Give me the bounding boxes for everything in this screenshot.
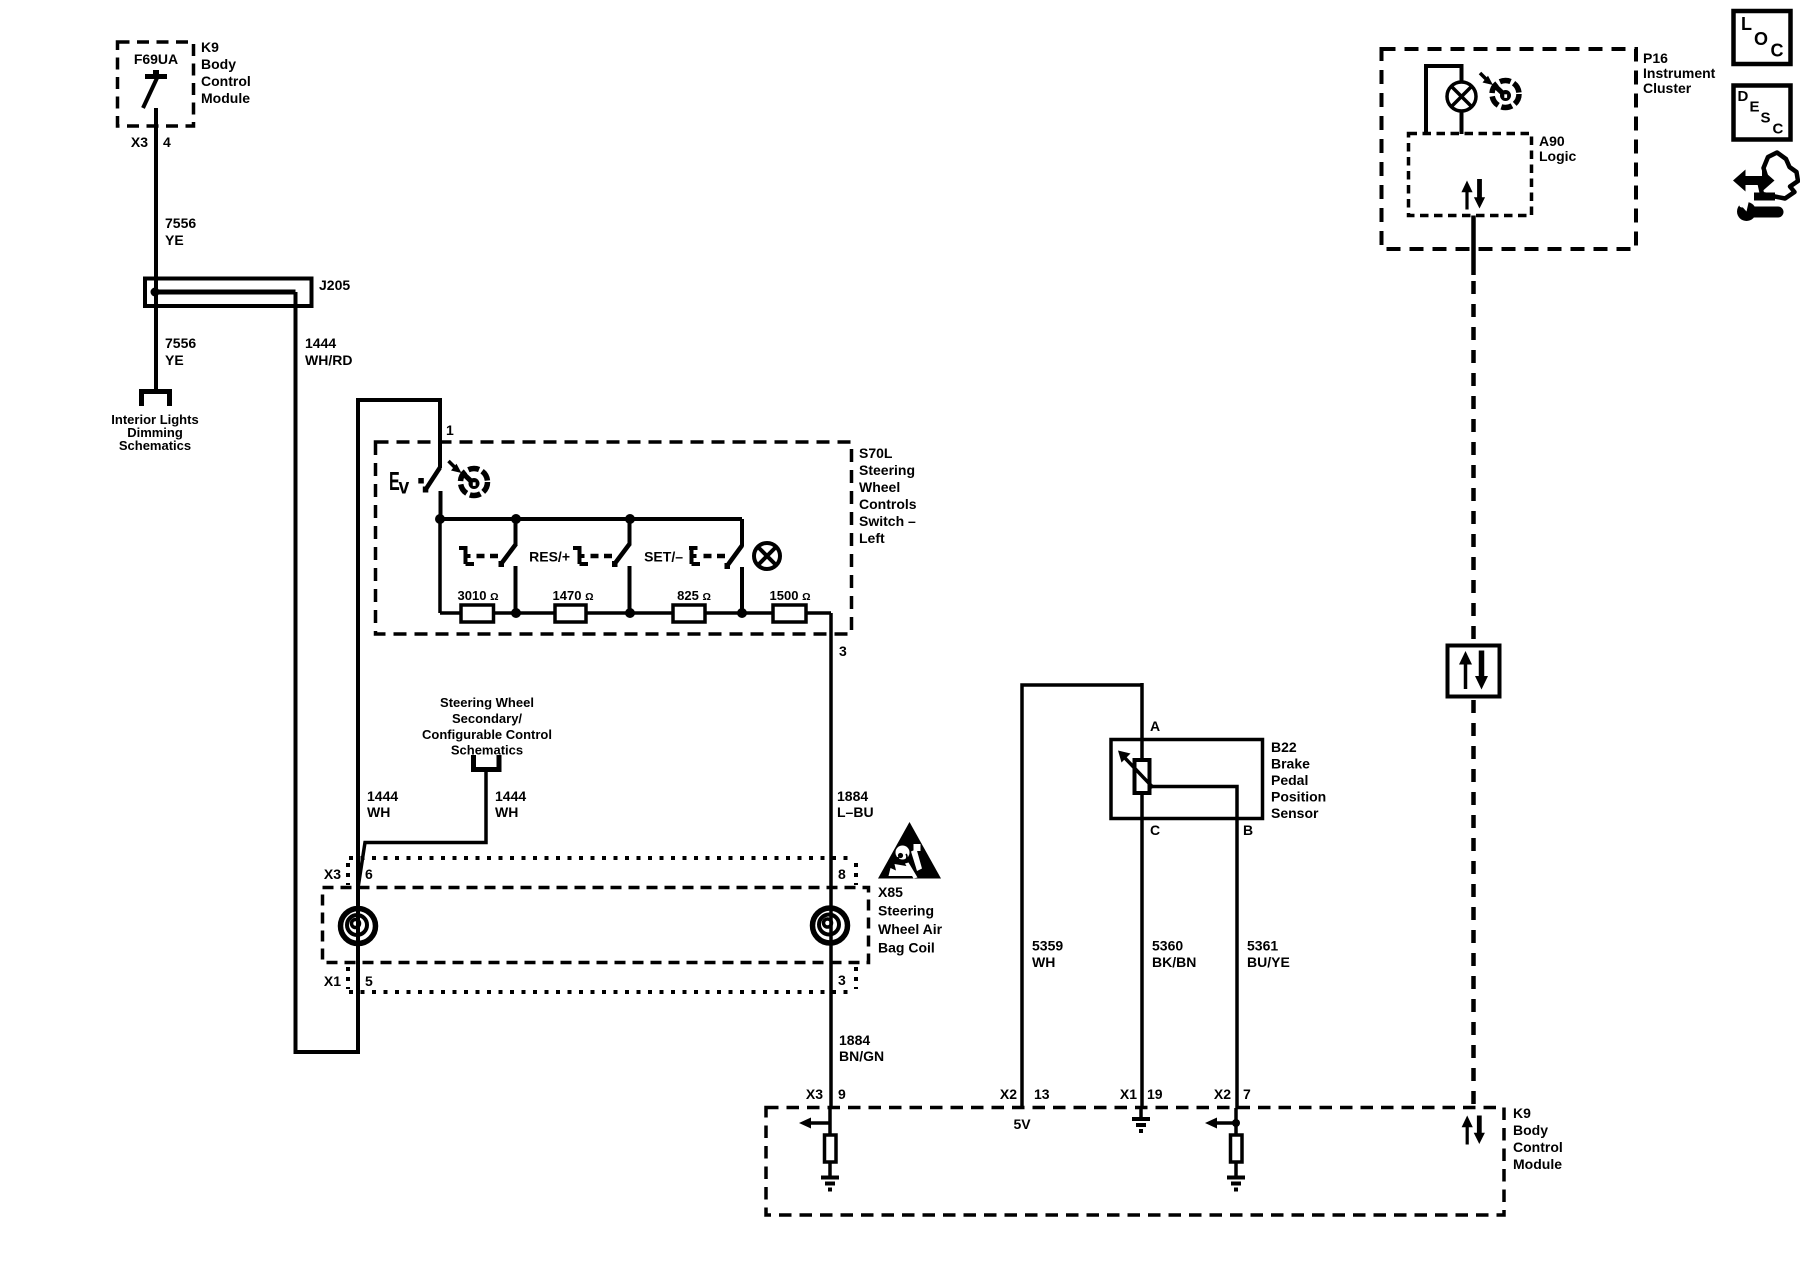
svg-text:WH: WH <box>1032 954 1055 970</box>
connector row X3 dotted line <box>349 856 855 860</box>
svg-text:E: E <box>1750 99 1760 116</box>
svg-text:C: C <box>1150 822 1160 838</box>
illumination lamp symbol <box>754 543 780 569</box>
svg-text:X1: X1 <box>324 973 341 989</box>
sensor B22 box <box>1111 740 1263 819</box>
svg-text:5359: 5359 <box>1032 938 1063 954</box>
wire and pulldown resistor at X3 9 <box>828 1108 832 1177</box>
svg-text:L: L <box>1741 14 1752 34</box>
wire and pulldown resistor at X2 7 <box>1234 1108 1238 1177</box>
wire label 1444 WH (right) <box>495 788 526 820</box>
svg-text:YE: YE <box>165 232 184 248</box>
svg-text:Brake: Brake <box>1271 756 1310 772</box>
junction dot D <box>511 608 521 618</box>
junction dot A <box>435 514 445 524</box>
icon LOC box <box>1734 11 1791 64</box>
wire label 1884 L-BU <box>837 788 874 820</box>
switch 3 mechanical link dashes <box>704 554 726 559</box>
svg-text:Pedal: Pedal <box>1271 772 1308 788</box>
module K9 Body Control Module label (top) <box>201 39 251 106</box>
svg-text:X1: X1 <box>1120 1086 1137 1102</box>
svg-text:Body: Body <box>201 56 236 72</box>
wire label 5359 WH <box>1032 938 1063 971</box>
svg-text:WH: WH <box>495 804 518 820</box>
svg-text:L–BU: L–BU <box>837 804 874 820</box>
junction dot F <box>737 608 747 618</box>
label SET/- <box>644 549 683 565</box>
coil X85 dashed box <box>323 888 869 963</box>
svg-text:X2: X2 <box>1214 1086 1231 1102</box>
resistor 3010 ohm <box>458 588 499 622</box>
fuse F69UA symbol <box>143 70 167 108</box>
svg-text:7: 7 <box>1243 1086 1251 1102</box>
junction dot E <box>625 608 635 618</box>
svg-text:K9: K9 <box>1513 1105 1531 1121</box>
wiper wire to pin B <box>1149 787 1237 1109</box>
svg-text:7556: 7556 <box>165 215 196 231</box>
svg-text:Instrument: Instrument <box>1643 65 1716 81</box>
svg-text:Left: Left <box>859 530 885 546</box>
label RES/+ <box>529 549 570 565</box>
connector X3 labels <box>324 866 373 882</box>
svg-text:4: 4 <box>163 134 171 150</box>
serial data gateway box <box>1448 646 1500 697</box>
svg-text:Body: Body <box>1513 1122 1548 1138</box>
switch 2 blade and stubs <box>612 519 630 613</box>
wire 5359 WH (5V supply) <box>1022 685 1142 1108</box>
switch S70L dashed box <box>376 442 852 634</box>
svg-text:3: 3 <box>839 643 847 659</box>
fuse F69UA dashed box <box>118 42 194 126</box>
fuse F69UA label <box>134 51 178 67</box>
svg-text:Switch –: Switch – <box>859 513 916 529</box>
wire label 1884 BN/GN <box>839 1032 884 1064</box>
svg-text:825 Ω: 825 Ω <box>677 588 711 603</box>
wire 5360 BK/BN (pin A to C through sensor) <box>1140 683 1144 1108</box>
junction dot at X2 7 arrow <box>1232 1119 1240 1127</box>
serial data symbol in gateway box <box>1459 651 1488 690</box>
switch 3 blade and stubs <box>725 519 743 613</box>
svg-text:5: 5 <box>365 973 373 989</box>
label Ev <box>389 466 410 499</box>
air bag warning triangle <box>878 822 941 879</box>
pin X2 13 labels <box>1000 1086 1050 1102</box>
svg-text:Wheel: Wheel <box>859 479 900 495</box>
svg-text:6: 6 <box>365 866 373 882</box>
svg-text:8: 8 <box>838 866 846 882</box>
connector X3 tick right <box>854 863 858 885</box>
svg-text:X85: X85 <box>878 884 903 900</box>
connector pin 8 label <box>838 866 846 882</box>
svg-text:BU/YE: BU/YE <box>1247 954 1290 970</box>
svg-text:P16: P16 <box>1643 50 1668 66</box>
svg-text:A: A <box>1150 718 1160 734</box>
svg-text:X2: X2 <box>1000 1086 1017 1102</box>
indicator lamp wire loop <box>1426 66 1462 134</box>
svg-text:A90: A90 <box>1539 133 1565 149</box>
svg-text:B: B <box>1243 822 1253 838</box>
pin X1 19 labels <box>1120 1086 1163 1102</box>
pin 1 label of S70L <box>446 422 454 438</box>
connector X1 labels <box>324 973 373 989</box>
ground symbol under X2 7 <box>1227 1178 1245 1190</box>
svg-text:1884: 1884 <box>837 788 868 804</box>
svg-text:5V: 5V <box>1013 1116 1031 1132</box>
splice pack J205 box <box>145 279 312 307</box>
icon data communication <box>1733 153 1798 222</box>
svg-text:Schematics: Schematics <box>119 438 191 453</box>
pin X2 7 labels <box>1214 1086 1251 1102</box>
svg-text:7556: 7556 <box>165 335 196 351</box>
svg-text:Steering: Steering <box>878 903 934 919</box>
label 5V <box>1013 1116 1031 1132</box>
svg-text:3: 3 <box>838 972 846 988</box>
svg-text:Control: Control <box>201 73 251 89</box>
resistor 825 ohm <box>673 588 711 622</box>
module P16 label <box>1643 50 1716 96</box>
svg-text:13: 13 <box>1034 1086 1050 1102</box>
pin 3 label of S70L <box>839 643 847 659</box>
svg-text:v: v <box>399 476 410 499</box>
wire label 1444 WH (left) <box>367 788 398 820</box>
signal arrow at X3 9 <box>799 1118 830 1129</box>
resistor 1470 ohm <box>553 588 594 622</box>
serial data symbol inside A90 <box>1461 179 1485 210</box>
svg-text:19: 19 <box>1147 1086 1163 1102</box>
indicator lamp symbol <box>1447 82 1476 111</box>
svg-text:Cluster: Cluster <box>1643 80 1692 96</box>
logic module A90 dashed box <box>1409 134 1532 216</box>
svg-text:BK/BN: BK/BN <box>1152 954 1196 970</box>
off-page label Interior Lights Dimming Schematics <box>111 412 198 453</box>
serial data wire dashed lower segment <box>1471 700 1476 1107</box>
svg-text:WH: WH <box>367 804 390 820</box>
svg-text:Sensor: Sensor <box>1271 805 1319 821</box>
switch 2 mechanical link dashes <box>591 554 613 559</box>
svg-text:Module: Module <box>1513 1156 1562 1172</box>
module P16 Instrument Cluster dashed box <box>1382 49 1637 249</box>
air bag coil left <box>341 909 376 944</box>
svg-text:S70L: S70L <box>859 445 893 461</box>
serial data wire dashed upper segment <box>1471 281 1476 645</box>
connector X3 tick left <box>346 863 350 885</box>
svg-text:1444: 1444 <box>367 788 398 804</box>
serial data wire solid segment below A90 <box>1471 216 1476 276</box>
svg-text:Schematics: Schematics <box>451 743 523 758</box>
svg-text:X3: X3 <box>806 1086 823 1102</box>
potentiometer arrow <box>1118 751 1153 788</box>
svg-text:X3: X3 <box>324 866 341 882</box>
resistor 1500 ohm <box>770 588 811 622</box>
wire label 7556 YE (upper) <box>165 215 196 248</box>
svg-text:1884: 1884 <box>839 1032 870 1048</box>
svg-text:YE: YE <box>165 352 184 368</box>
air bag coil right <box>813 908 848 943</box>
connector row X1 dotted line <box>349 990 855 994</box>
svg-text:1500 Ω: 1500 Ω <box>770 588 811 603</box>
svg-text:Logic: Logic <box>1539 148 1577 164</box>
off-page fork to Steering Wheel Secondary <box>471 755 502 770</box>
cruise control icon (speedometer) <box>449 461 488 496</box>
module K9 BCM label (bottom) <box>1513 1105 1563 1172</box>
wire branch 1 (bus to ladder) <box>438 519 442 613</box>
svg-text:C: C <box>1771 41 1784 61</box>
switch 1 fixed contact bracket <box>459 546 474 564</box>
bus wire inside S70L <box>440 517 742 521</box>
svg-text:SET/–: SET/– <box>644 549 683 565</box>
coil X85 label <box>878 884 943 956</box>
wire 1884 L-BU from S70L pin 3 to coil <box>829 613 833 1108</box>
pin X3 9 labels <box>806 1086 846 1102</box>
svg-text:Controls: Controls <box>859 496 917 512</box>
svg-text:D: D <box>1738 88 1749 105</box>
svg-text:Control: Control <box>1513 1139 1563 1155</box>
cruise on/off switch blade <box>423 468 441 522</box>
junction dot C <box>625 514 635 524</box>
cruise icon in cluster (speedometer) <box>1480 73 1519 108</box>
switch S70L label <box>859 445 917 546</box>
signal arrow at X2 7 <box>1205 1118 1236 1129</box>
pin B label <box>1243 822 1253 838</box>
sensor B22 label <box>1271 739 1326 821</box>
svg-text:1444: 1444 <box>495 788 526 804</box>
connector pin 3 label <box>838 972 846 988</box>
pin A label <box>1150 718 1160 734</box>
ground symbol under X3 9 <box>821 1178 839 1190</box>
svg-text:Wheel Air: Wheel Air <box>878 921 943 937</box>
svg-text:Steering Wheel: Steering Wheel <box>440 695 534 710</box>
resistor body X2 7 <box>1231 1135 1243 1162</box>
svg-text:S: S <box>1761 110 1771 127</box>
splice pack J205 label <box>319 277 350 293</box>
wire label 5361 BU/YE <box>1247 938 1290 971</box>
svg-text:WH/RD: WH/RD <box>305 352 352 368</box>
resistor body X3 9 <box>825 1135 837 1162</box>
svg-text:1470 Ω: 1470 Ω <box>553 588 594 603</box>
svg-text:F69UA: F69UA <box>134 51 178 67</box>
svg-text:5361: 5361 <box>1247 938 1278 954</box>
svg-text:1: 1 <box>446 422 454 438</box>
svg-text:K9: K9 <box>201 39 219 55</box>
switch 1 blade and stubs <box>499 519 517 613</box>
svg-text:O: O <box>1754 29 1768 49</box>
svg-text:Steering: Steering <box>859 462 915 478</box>
splice pack J205 bus bar <box>151 288 296 297</box>
logic module A90 label <box>1539 133 1577 164</box>
svg-text:Configurable Control: Configurable Control <box>422 727 552 742</box>
module K9 BCM dashed box <box>766 1108 1504 1216</box>
serial data symbol inside BCM <box>1462 1116 1485 1145</box>
off-page fork to Interior Lights Dimming <box>139 391 172 406</box>
wire label 1444 WH/RD <box>305 335 352 368</box>
connector X1 tick right <box>854 967 858 989</box>
switch 2 fixed contact bracket <box>573 546 588 564</box>
svg-text:RES/+: RES/+ <box>529 549 570 565</box>
svg-text:5360: 5360 <box>1152 938 1183 954</box>
svg-text:3010 Ω: 3010 Ω <box>458 588 499 603</box>
wire 7556 YE from F69UA to fork <box>154 108 158 389</box>
off-page label Steering Wheel Secondary/Configurable Control Schematics <box>422 695 552 758</box>
connector X1 tick left <box>346 967 350 989</box>
potentiometer element <box>1135 760 1150 793</box>
svg-text:Module: Module <box>201 90 250 106</box>
pin X3 4 labels <box>131 134 171 150</box>
svg-text:B22: B22 <box>1271 739 1297 755</box>
resistor ladder bottom wire <box>440 611 831 615</box>
junction dot B <box>511 514 521 524</box>
wire 1444 WH/RD loop from J205 to S70L pin 1 <box>294 292 441 1054</box>
icon DESC box <box>1734 86 1791 140</box>
svg-text:Position: Position <box>1271 789 1326 805</box>
svg-text:J205: J205 <box>319 277 350 293</box>
svg-text:Bag Coil: Bag Coil <box>878 940 935 956</box>
svg-text:9: 9 <box>838 1086 846 1102</box>
ground symbol under X1 19 <box>1132 1108 1150 1131</box>
svg-text:BN/GN: BN/GN <box>839 1048 884 1064</box>
svg-text:C: C <box>1773 121 1784 138</box>
svg-text:Secondary/: Secondary/ <box>452 711 522 726</box>
switch 3 fixed contact bracket <box>689 546 700 564</box>
pin C label <box>1150 822 1160 838</box>
wire label 7556 YE (lower) <box>165 335 196 368</box>
svg-text:1444: 1444 <box>305 335 336 351</box>
wire 1444 WH from fork to coil pin 6 <box>358 772 486 888</box>
wire label 5360 BK/BN <box>1152 938 1196 971</box>
svg-text:X3: X3 <box>131 134 148 150</box>
mechanical link dash <box>418 478 424 484</box>
switch 1 mechanical link dashes <box>477 554 499 559</box>
